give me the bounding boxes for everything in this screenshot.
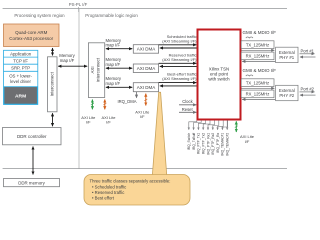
balloon tail	[152, 92, 167, 176]
svg-text:map I/F: map I/F	[60, 58, 75, 63]
wire Interconnect to AXI interconnect	[58, 65, 87, 67]
wire PHY2 to TSN RX	[242, 98, 275, 100]
svg-text:• Reserved traffic: • Reserved traffic	[92, 190, 125, 195]
node brace 2	[246, 75, 253, 76]
svg-text:PHY #2: PHY #2	[279, 93, 294, 98]
svg-text:IRQ_DMA: IRQ_DMA	[117, 99, 136, 104]
wire Port1 to PHY1	[300, 56, 316, 58]
svg-text:Application: Application	[10, 51, 32, 56]
svg-text:IRQ_PTP_Rx1: IRQ_PTP_Rx1	[206, 133, 210, 155]
block AXI DMA 1	[133, 45, 158, 54]
svg-text:IRQ_PTP_Tx1: IRQ_PTP_Tx1	[197, 133, 201, 155]
wire Port2 to PHY2	[300, 94, 316, 96]
svg-text:(AXI Streaming I/F): (AXI Streaming I/F)	[162, 39, 197, 44]
wire PHY1 to TSN RX	[242, 60, 275, 62]
wire bottom region rule	[3, 168, 287, 170]
svg-text:I/F: I/F	[245, 139, 250, 144]
block AXI DMA 2	[133, 64, 158, 73]
svg-text:RX_125MHz: RX_125MHz	[246, 92, 270, 97]
wire AXI Lite green under AXI interconnect	[91, 100, 94, 110]
wire Interconnect to DDR controller	[52, 113, 54, 126]
block DDR controller	[3, 128, 62, 145]
svg-text:Port #2: Port #2	[301, 86, 315, 91]
svg-text:TX_125MHz: TX_125MHz	[246, 80, 269, 85]
wire AXI DMA 2 to TSN	[159, 62, 197, 64]
svg-text:with switch: with switch	[208, 76, 230, 81]
svg-text:SRP, PTP: SRP, PTP	[11, 66, 30, 71]
block TX 125MHz port2	[241, 79, 274, 87]
svg-text:RX_125MHz: RX_125MHz	[246, 54, 270, 59]
node IRQ_DMA	[136, 92, 138, 98]
svg-text:Clock: Clock	[182, 99, 193, 104]
wire top region rule	[3, 7, 287, 9]
svg-text:I/F: I/F	[86, 120, 91, 125]
wire IRQ comb under TSN	[189, 120, 228, 129]
svg-text:Programmable logic region: Programmable logic region	[85, 13, 138, 18]
wire AXI DMA 3 to TSN	[159, 82, 197, 84]
svg-text:GMII & MDIO I/F: GMII & MDIO I/F	[243, 30, 277, 35]
block AXI interconnect	[88, 43, 104, 98]
block External PHY #1	[276, 47, 298, 62]
svg-text:IRQ_TEMAC#2: IRQ_TEMAC#2	[226, 133, 230, 156]
svg-text:ARM: ARM	[15, 93, 26, 99]
wire AXI DMA 1 to TSN	[159, 44, 197, 46]
wire TSN to AXI DMA 3	[160, 85, 198, 87]
svg-text:map I/F: map I/F	[106, 62, 121, 67]
svg-text:IRQ_TxBuff: IRQ_TxBuff	[192, 133, 196, 150]
wire TSN to AXI DMA 1	[160, 47, 198, 49]
svg-text:Three traffic classes separate: Three traffic classes separately accessi…	[90, 179, 171, 184]
wire AXI interconnect to AXI DMA 2	[106, 67, 132, 69]
wire TSN to AXI DMA 2	[160, 65, 198, 67]
svg-text:I/F: I/F	[140, 114, 145, 119]
block AXI DMA 3	[133, 83, 158, 92]
node brace 1	[246, 37, 253, 38]
wire AXI Lite orange under AXI DMA 3	[144, 94, 147, 106]
svg-text:Reset: Reset	[182, 107, 194, 112]
svg-text:(AXI Streaming I/F): (AXI Streaming I/F)	[162, 76, 197, 81]
svg-text:• Scheduled traffic: • Scheduled traffic	[92, 185, 127, 190]
svg-text:level driver: level driver	[10, 79, 31, 84]
svg-text:AXI: AXI	[90, 66, 95, 73]
svg-text:map I/F: map I/F	[106, 81, 121, 86]
wire ARM processor to Interconnect	[52, 48, 54, 56]
balloon callout	[84, 175, 190, 206]
svg-text:PHY #1: PHY #1	[279, 55, 294, 60]
svg-text:Processing system region: Processing system region	[14, 13, 65, 18]
wire PHY2 to Port2	[300, 91, 315, 93]
block Quad-core ARM Cortex-A53 processor	[4, 24, 60, 47]
svg-text:Cortex-A53 processor: Cortex-A53 processor	[9, 36, 53, 41]
wire PHY1 to Port1	[300, 53, 315, 55]
wire TSN to PHY2 TX	[241, 87, 274, 89]
svg-text:Quad-core ARM: Quad-core ARM	[15, 30, 48, 35]
svg-text:IRQ_PTP_Rx: IRQ_PTP_Rx	[216, 132, 220, 152]
svg-text:Interconnect: Interconnect	[50, 71, 55, 96]
svg-text:AXI DMA: AXI DMA	[137, 66, 156, 71]
svg-text:DDR memory: DDR memory	[18, 181, 45, 186]
svg-text:OS + lower-: OS + lower-	[9, 74, 32, 79]
svg-text:TX_125MHz: TX_125MHz	[246, 42, 269, 47]
block Interconnect	[48, 57, 58, 112]
svg-text:GMII & MDIO I/F: GMII & MDIO I/F	[243, 68, 277, 73]
svg-text:I/F: I/F	[106, 120, 111, 125]
wire AXI Lite orange under AXI interconnect	[103, 100, 106, 110]
svg-text:IRQ_Switch: IRQ_Switch	[187, 133, 191, 151]
block software stack	[4, 50, 38, 104]
block External PHY #2	[276, 85, 298, 100]
svg-text:(AXI Streaming I/F): (AXI Streaming I/F)	[162, 57, 197, 62]
block DDR memory	[4, 179, 60, 187]
svg-text:interconnect: interconnect	[96, 57, 101, 82]
svg-text:IRQ_PTP_Rx2: IRQ_PTP_Rx2	[211, 133, 215, 155]
svg-text:IRQ_TEMAC#1: IRQ_TEMAC#1	[221, 133, 225, 156]
svg-text:Port #1: Port #1	[301, 48, 315, 53]
svg-text:TCP I/F: TCP I/F	[13, 58, 28, 63]
block Xilinx TSN end point with switch	[198, 30, 241, 120]
block TX 125MHz port1	[241, 41, 274, 49]
svg-text:IRQ_PTP_Tx2: IRQ_PTP_Tx2	[202, 133, 206, 155]
svg-text:• Best effort: • Best effort	[92, 196, 115, 201]
block RX 125MHz port2	[241, 90, 274, 98]
svg-text:map I/F: map I/F	[106, 43, 121, 48]
svg-text:DDR controller: DDR controller	[17, 134, 47, 139]
svg-text:AXI DMA: AXI DMA	[137, 85, 156, 90]
wire PS/PL divider	[78, 8, 80, 168]
wire TSN to PHY1 TX	[241, 49, 274, 51]
svg-text:PS-PL I/F: PS-PL I/F	[69, 2, 88, 7]
wire AXI interconnect to AXI DMA 1	[106, 48, 132, 50]
wire DDR controller to DDR memory	[32, 147, 34, 175]
wire AXI interconnect to AXI DMA 3	[106, 86, 132, 88]
wire AXI Lite green under TSN	[235, 121, 238, 132]
svg-text:AXI DMA: AXI DMA	[137, 47, 156, 52]
block RX 125MHz port1	[241, 52, 274, 60]
